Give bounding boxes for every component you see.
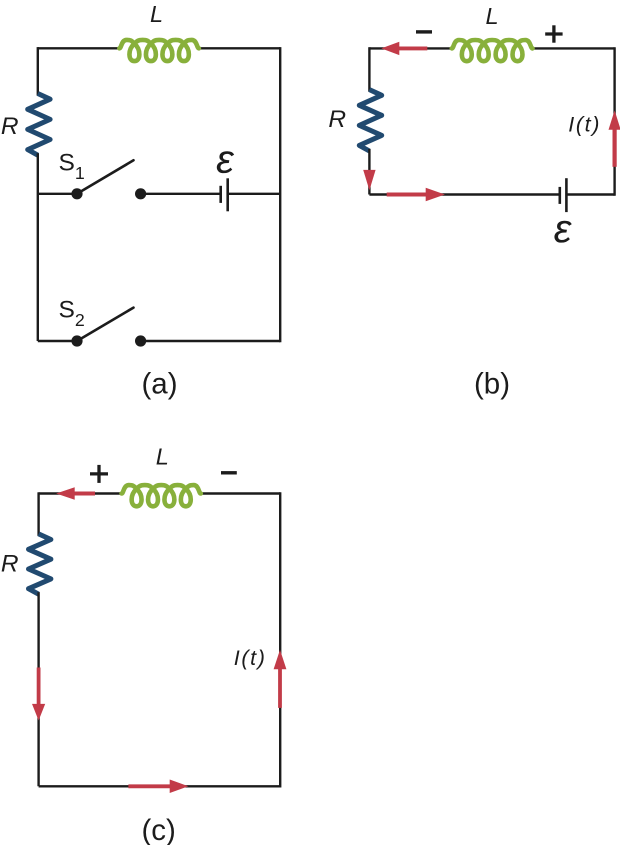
svg-text:(b): (b) bbox=[474, 368, 510, 401]
caption (a) bbox=[141, 367, 177, 400]
switch S1 hinge dot bbox=[71, 188, 82, 199]
label R (a) bbox=[1, 113, 19, 140]
svg-text:I(t): I(t) bbox=[568, 113, 601, 137]
wire: circuit (c) left side lower (resistor to bottom) bbox=[37, 592, 39, 786]
label L (c) bbox=[156, 444, 169, 470]
wire: circuit (b) bottom-right segment (battery to corner) bbox=[566, 193, 614, 195]
svg-text:ε: ε bbox=[216, 138, 235, 182]
battery ε (b) short plate bbox=[558, 187, 561, 204]
switch S2 contact dot bbox=[135, 335, 146, 346]
inductor L (b) coil bbox=[452, 40, 533, 61]
wire: circuit (c) bottom wire bbox=[39, 785, 281, 787]
wire: circuit (a) left side upper (top to resistor) bbox=[37, 47, 39, 95]
svg-text:S1: S1 bbox=[59, 150, 85, 183]
current arrow (c) bottom wire, pointing right bbox=[128, 780, 188, 794]
svg-text:S2: S2 bbox=[59, 297, 85, 330]
caption (c) bbox=[141, 814, 175, 845]
svg-text:I(t): I(t) bbox=[234, 646, 267, 670]
svg-text:(c): (c) bbox=[141, 814, 175, 845]
wire: circuit (b) top-left segment bbox=[369, 47, 452, 49]
current arrow (b) top wire, pointing left bbox=[381, 42, 427, 55]
label I(t) (c) bbox=[234, 646, 267, 670]
wire: circuit (a) left side lower (resistor to bottom) bbox=[37, 153, 39, 341]
wire: circuit (c) top-left segment bbox=[39, 492, 123, 494]
wire: circuit (a) top-left segment bbox=[38, 47, 121, 49]
battery ε (a) long plate bbox=[226, 178, 229, 211]
resistor R (b) bbox=[359, 90, 381, 151]
switch S2 hinge dot bbox=[71, 335, 82, 346]
wire: circuit (a) bottom branch left (to switch S2) bbox=[38, 340, 77, 342]
label S1 bbox=[59, 150, 85, 183]
svg-text:L: L bbox=[485, 3, 498, 29]
svg-text:L: L bbox=[150, 1, 163, 27]
inductor L (c) coil bbox=[122, 485, 201, 506]
label minus sign (b) inductor left terminal bbox=[416, 30, 432, 33]
svg-text:(a): (a) bbox=[141, 367, 177, 400]
svg-text:R: R bbox=[1, 550, 19, 577]
wire: circuit (b) bottom-left segment bbox=[369, 193, 559, 195]
wire: circuit (b) right side bbox=[613, 47, 615, 196]
caption (b) bbox=[474, 368, 510, 401]
wire: circuit (c) top-right segment bbox=[200, 492, 280, 494]
wire: circuit (a) right side bbox=[279, 47, 281, 342]
resistor R (c) bbox=[29, 534, 51, 594]
current arrow (b) right wire, pointing up I(t) bbox=[609, 110, 620, 166]
battery ε (a) short plate bbox=[219, 186, 222, 203]
label R (b) bbox=[328, 106, 346, 133]
wire: circuit (b) left side upper (top to resistor) bbox=[368, 47, 370, 91]
current arrow (c) right wire, pointing up I(t) bbox=[274, 650, 287, 708]
svg-text:R: R bbox=[1, 113, 19, 140]
label R (c) bbox=[1, 550, 19, 577]
inductor L (a) coil bbox=[119, 40, 198, 61]
label ε (b) bbox=[554, 207, 573, 251]
svg-text:R: R bbox=[328, 106, 346, 133]
wire: circuit (b) top-right segment bbox=[532, 47, 615, 49]
label plus sign (c) inductor left terminal bbox=[90, 465, 108, 483]
wire: circuit (a) middle branch (S1 contact to battery) bbox=[141, 193, 221, 195]
wire: circuit (a) middle branch left (to switch S1) bbox=[38, 193, 77, 195]
switch S2 blade bbox=[77, 308, 134, 341]
wire: circuit (a) top-right segment bbox=[198, 47, 280, 49]
switch S1 contact dot bbox=[135, 188, 146, 199]
wire: circuit (a) bottom branch right (S2 contact to right side) bbox=[141, 340, 281, 342]
current arrow (c) left wire, pointing down bbox=[32, 668, 45, 721]
wire: circuit (a) middle branch right (battery to right side) bbox=[228, 193, 281, 195]
svg-text:L: L bbox=[156, 444, 169, 470]
label L (a) bbox=[150, 1, 163, 27]
label I(t) (b) bbox=[568, 113, 601, 137]
wire: circuit (c) right side bbox=[279, 492, 281, 787]
label plus sign (b) inductor right terminal bbox=[545, 25, 562, 42]
battery ε (b) long plate bbox=[565, 178, 568, 212]
resistor R (a) bbox=[28, 94, 50, 156]
svg-text:ε: ε bbox=[554, 207, 573, 251]
current arrow (b) bottom wire, pointing right bbox=[387, 188, 445, 201]
current arrow (b) left wire, pointing down bbox=[363, 170, 375, 190]
current arrow (c) top wire, pointing left bbox=[56, 487, 95, 499]
wire: circuit (b) left side lower (resistor to bottom corner) bbox=[368, 149, 370, 195]
label minus sign (c) inductor right terminal bbox=[221, 471, 237, 474]
label ε (a) bbox=[216, 138, 235, 182]
wire: circuit (c) left side upper (top to resistor) bbox=[37, 492, 39, 536]
label L (b) bbox=[485, 3, 498, 29]
switch S1 blade bbox=[77, 160, 134, 194]
label S2 bbox=[59, 297, 85, 330]
